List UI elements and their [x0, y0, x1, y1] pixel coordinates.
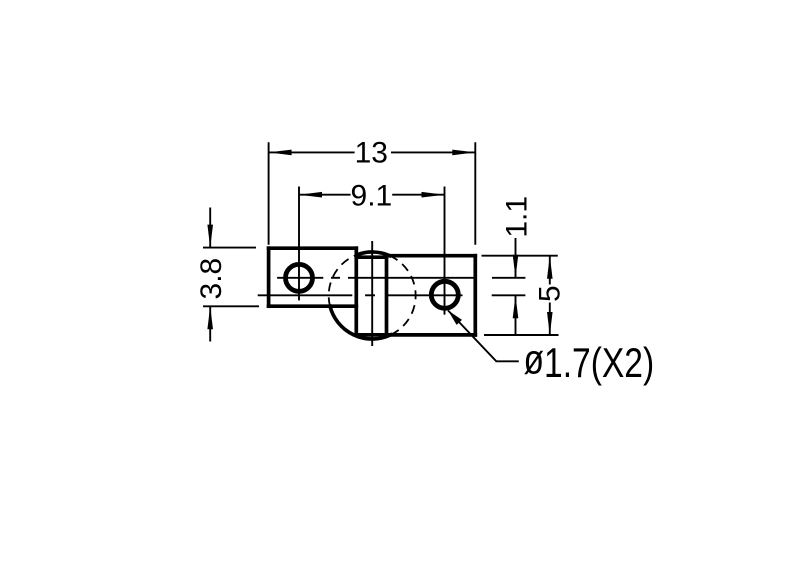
hole right	[431, 281, 458, 308]
right body rect top edge	[387, 254, 476, 258]
left flange rect bottom edge	[269, 304, 357, 308]
part outline group	[269, 248, 476, 339]
arrow 5 up	[547, 256, 553, 279]
dim line 9.1	[299, 194, 351, 196]
left hole centerline segments	[277, 277, 323, 279]
hole left	[286, 264, 313, 291]
dimension 1.1	[482, 238, 558, 335]
svg-text:5: 5	[533, 285, 566, 302]
ext line left of 9.1 (hole centerline)	[298, 187, 300, 301]
left flange rect top edge	[269, 246, 357, 250]
arrow 13 left	[269, 150, 292, 156]
ext line right of 13	[474, 142, 476, 244]
leader arrowhead	[448, 310, 462, 325]
arrow 1.1 up	[513, 295, 519, 318]
ext line bottom of 3.8	[203, 305, 259, 307]
ext line left of 13	[268, 142, 270, 244]
dim line 3.8 upper	[209, 208, 211, 248]
vertical centerline of barrel	[371, 241, 373, 346]
ext line top of 3.8	[203, 247, 256, 249]
label 1.1	[500, 196, 533, 238]
dimension 5	[484, 256, 559, 335]
label hole note	[524, 337, 655, 387]
dim line 5 lower	[549, 303, 551, 336]
left flange rect left edge	[267, 248, 271, 306]
dim line 3.8 lower	[209, 306, 211, 341]
dim line 13	[269, 151, 355, 153]
svg-text:9.1: 9.1	[351, 180, 393, 213]
label 3.8	[195, 258, 228, 300]
dimension 9.1	[299, 187, 445, 315]
arrow 9.1 left	[299, 192, 322, 198]
dim line 1.1 upper	[515, 238, 517, 278]
svg-text:13: 13	[355, 136, 388, 169]
leader line for hole note	[448, 310, 519, 361]
label 5	[533, 285, 566, 302]
main horizontal centerline segments	[258, 294, 353, 296]
hidden arcs dashed	[329, 255, 416, 335]
svg-text:ø1.7(X2): ø1.7(X2)	[524, 337, 655, 387]
svg-text:3.8: 3.8	[195, 258, 228, 300]
dimension 3.8	[203, 208, 259, 342]
dimension 13	[269, 142, 476, 244]
barrel rect top edge	[356, 255, 386, 259]
circle visible bottom arc	[330, 306, 391, 339]
ext line A right body top	[482, 255, 558, 257]
arrow 13 right	[452, 150, 475, 156]
arrow 5 down	[547, 312, 553, 335]
dim line 5 upper	[549, 256, 551, 285]
circle visible top arc	[357, 252, 390, 256]
shared vertical edge left of barrel	[354, 248, 358, 335]
arrow 3.8 top	[207, 225, 213, 248]
bottom edge of barrel and right body	[356, 333, 475, 337]
ext line D right body bottom	[484, 334, 559, 336]
centerlines	[258, 241, 526, 346]
ext line right of 9.1 (hole centerline)	[444, 187, 446, 315]
hidden left arc	[329, 255, 358, 307]
right body rect right edge	[473, 256, 477, 335]
arrow 9.1 right	[422, 192, 445, 198]
dim line 1.1 lower	[515, 295, 517, 335]
arrow 1.1 down	[513, 255, 519, 278]
hidden right arc	[390, 256, 416, 335]
arrow 3.8 bottom	[207, 306, 213, 329]
barrel rect right edge	[385, 257, 389, 335]
svg-text:1.1: 1.1	[500, 196, 533, 238]
